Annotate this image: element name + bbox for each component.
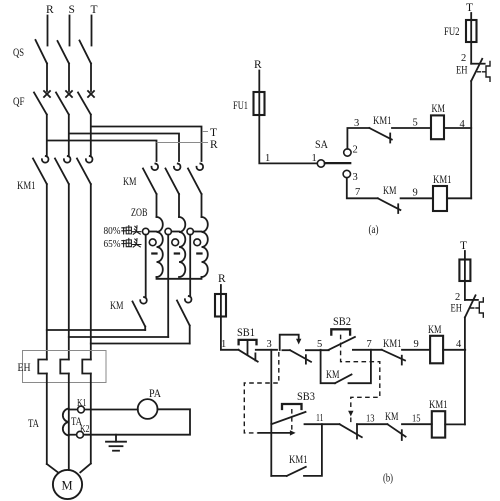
contact EH NC (thermal, circuit b) [465,295,483,317]
thermal relay EH box [23,351,107,383]
terminal K1 circle [69,406,85,413]
motor M circle [53,470,82,499]
svg-text:KM: KM [385,411,399,423]
contactor KM run contact 2 [177,296,192,343]
svg-text:T: T [210,127,217,139]
switch SA contact 3 circle [343,170,358,183]
svg-text:5: 5 [317,339,322,350]
contactor KM1 main contact S [55,156,70,359]
node T bus label [210,127,217,139]
wire R to fuse (b) [220,285,222,294]
terminal K2 label [80,424,90,435]
contact KM1 NO self-hold label [289,454,308,466]
button SB1 NC contact [239,340,258,362]
bus phase S to KM column (middle) [70,134,180,162]
CONTROL CIRCUIT A (top right) [233,2,490,236]
wire 9 segment [401,188,433,199]
wire contact2 up to branch [347,128,369,149]
contact SB3 NO blade (row2 left) [271,412,305,424]
svg-text:SA: SA [315,139,329,151]
wire tap2 down to H2 [167,235,169,337]
thermal relay EH heater S [60,360,69,471]
contact KM1 NC blade [369,128,391,143]
svg-text:KM1: KM1 [383,338,402,350]
contact 11-13 NC (linked to SB2) [340,424,362,438]
wire KM1 coil to right vertical (b) [445,423,465,425]
node T supply label [466,2,473,14]
contact KM NC blade (row2) [387,424,405,440]
svg-text:15: 15 [412,414,421,425]
breaker QF label [13,96,25,108]
wire motor lead T [80,464,91,473]
wire FU2 down [470,42,472,64]
svg-text:3: 3 [353,172,358,183]
contact KM NO label [326,369,340,381]
svg-text:QF: QF [13,96,25,108]
wire SB1 to node 3 [256,349,277,351]
svg-text:1: 1 [312,153,317,164]
svg-text:13: 13 [366,414,375,425]
svg-text:4: 4 [456,339,462,350]
node 5 wire number [317,339,322,350]
switch QS pole S [58,41,70,91]
svg-text:5: 5 [413,118,418,129]
wire T to fuse (b) [464,251,466,260]
wire H3 tap3 to phase T [91,343,190,345]
svg-text:(a): (a) [369,224,379,236]
CONTROL CIRCUIT B (bottom right) [215,240,483,485]
autotransformer winding 1 [152,217,163,277]
contact KM1 NC blade (row1) [382,350,405,365]
svg-text:R: R [210,139,218,151]
autotransformer winding 3 [197,217,207,277]
coil KM (b) [428,324,443,363]
svg-text:KM: KM [428,324,442,336]
svg-text:3: 3 [267,339,272,350]
linkage bracket over contact 3-5 [280,335,302,350]
thermal relay EH heater R [38,360,47,465]
wire number 2 label (b) [455,292,460,303]
wire H1 tap1 to phase R [47,329,145,331]
current transformer TA label (inner) [71,416,83,428]
svg-text:SB1: SB1 [237,327,255,339]
wire 5 segment [392,118,431,129]
autotransformer ZOB label [131,207,148,219]
wire 5-7 segment [353,349,382,351]
svg-text:KM: KM [383,185,397,197]
svg-text:KM1: KM1 [17,180,36,192]
ammeter PA label [149,388,162,400]
ammeter PA circle [138,399,158,419]
wire PA loop right and back to K2 [83,409,190,434]
thermal relay EH heater T [82,360,91,464]
wire KM1 coil to right vertical [447,197,471,199]
svg-text:2: 2 [353,145,358,156]
svg-text:KM1: KM1 [433,174,452,186]
node 3 wire number [267,339,272,350]
switch SA label [315,139,329,151]
wire number 7 label [355,187,360,198]
breaker QF pole S [56,91,72,156]
MAIN POWER CIRCUIT (left) [13,4,218,499]
terminal K1 label [77,398,87,409]
autotransformer winding 2 [175,217,186,277]
node R supply label [254,59,262,71]
contact 3-5 (linked, operated by SB3) [282,350,328,363]
wire star point bus of ZOB [157,277,202,279]
svg-text:TA: TA [28,418,40,430]
switch SA blade [325,162,350,164]
contact KM1 NC (in KM branch) label [373,115,392,127]
fuse FU2 [466,20,477,42]
wire right vertical (b) [464,317,466,424]
node R (phase R label) [46,4,54,16]
node 1 wire number (b) [221,339,226,350]
wire FU1 to node 1 [259,115,317,163]
node T (phase T label) [91,4,98,16]
wire node3 vertical down [270,350,272,476]
fuse FU1 [254,92,265,115]
svg-text:EH: EH [456,65,468,77]
svg-text:ZOB: ZOB [131,207,148,219]
svg-text:9: 9 [413,188,418,199]
thermal relay EH label [18,362,31,374]
coil KM1 [433,174,452,211]
fuse FU (b right) [459,260,470,282]
svg-text:3: 3 [354,118,359,129]
node R supply label (b) [218,273,226,285]
node S (phase S label) [69,4,75,16]
contactor KM run contact 1 [133,297,147,330]
contact KM NC blade [378,198,401,213]
wire H2 tap2 to phase S [69,336,168,338]
bus phase T to KM column (top) [92,127,209,162]
svg-text:T: T [91,4,98,16]
svg-text:S: S [69,4,75,16]
svg-text:KM1: KM1 [289,454,308,466]
fuse FU1 label [233,100,248,112]
button SB1 label [237,327,255,339]
svg-text:SB2: SB2 [333,316,351,328]
switch QS pole R [36,40,48,91]
contactor KM1 main contact T [77,156,92,359]
svg-text:7: 7 [367,339,372,350]
wire R to FU1 [258,71,260,93]
contact KM NC (in KM1 branch) label [383,185,397,197]
label 80% tap [104,226,141,237]
thermal relay EH label (circuit b) [451,303,463,315]
contactor KM1 main contact R [33,156,48,359]
contact KM1 NC (row1) label [383,338,402,350]
node T supply label (b) [460,240,467,252]
wire 9 segment (b) [402,339,430,350]
wire contact3 down to KM1 branch [347,178,378,199]
svg-text:4: 4 [460,119,466,130]
contactor KM label (starting contacts) [123,176,137,188]
terminal K2 circle [69,431,84,438]
node 7 wire number [367,339,372,350]
fuse FU2 label [444,26,460,38]
contactor KM1 label (main contacts) [17,180,36,192]
bus phase R to KM column (bottom) [48,141,209,162]
wire K1 to PA [84,409,137,411]
contactor KM run contact label (bottom) [110,300,124,312]
svg-text:R: R [254,59,262,71]
contactor KM start contact 1 [143,164,158,217]
node 11 wire number [316,413,324,424]
svg-text:KM1: KM1 [373,115,392,127]
switch SA contact 2 circle [344,145,358,157]
tap 80% circle winding1 [143,228,157,234]
switch QS label [13,47,24,59]
coil KM [431,103,445,139]
svg-text:80%: 80% [104,226,121,237]
wire row2 line to node 11 [305,423,340,425]
mechanical link dashed: contact3-5 to SB3 [244,352,295,436]
button SB3 cap and stem [282,404,302,431]
current transformer TA winding bumps [63,409,69,436]
node 1 wire number (at switch) [312,153,317,164]
svg-text:QS: QS [13,47,24,59]
wire phase R drop to QS [47,16,49,46]
svg-text:KM: KM [432,103,446,115]
thermal relay EH label (circuit a) [456,65,468,77]
contactor KM start contact 2 [166,164,181,217]
wire number 3 label [354,118,359,129]
svg-text:KM1: KM1 [429,399,448,411]
ground symbol [106,435,126,451]
svg-text:PA: PA [149,388,162,400]
node R bus label [210,139,218,151]
wire right vertical down to branches [470,81,472,198]
wire fuse down to EH (b) [464,281,466,300]
svg-text:FU2: FU2 [444,26,460,38]
wire 4 segment [444,119,471,130]
switch QS pole T [80,41,92,92]
wire number 2 label [461,53,466,64]
wire fuse down to row1 [221,317,239,350]
svg-text:FU1: FU1 [233,100,248,112]
wire 15 segment [402,414,432,425]
wire tap3 down [189,235,191,296]
svg-text:EH: EH [18,362,31,374]
svg-text:KM: KM [326,369,340,381]
wire phase T drop to QS [91,16,93,46]
tap 80% circle winding3 [187,228,202,234]
svg-text:M: M [62,479,73,493]
node 1 wire number (left) [265,153,270,164]
wire tap1 down [145,235,147,297]
switch SA common circle [317,160,324,167]
svg-text:2: 2 [455,292,460,303]
svg-text:7: 7 [355,187,360,198]
label 65% tap [104,238,141,249]
svg-text:65%: 65% [104,239,121,250]
button SB2 NO contact [329,329,355,350]
contactor KM start contact 3 [188,164,203,217]
svg-text:1: 1 [265,153,270,164]
coil KM1 (b) [429,399,448,438]
svg-text:1: 1 [221,339,226,350]
contact KM NO (parallel with SB2) [321,350,371,383]
wire T to FU2 [470,13,472,20]
contact KM1 NO self-hold [271,424,322,476]
button SB2 label [333,316,351,328]
svg-text:KM: KM [123,176,137,188]
svg-text:R: R [46,4,54,16]
label (b) [383,473,393,485]
label (a) [369,224,379,236]
svg-text:KM: KM [110,300,124,312]
wire phase S drop to QS [69,16,71,46]
svg-text:EH: EH [451,303,463,315]
svg-text:T: T [460,240,467,252]
svg-text:2: 2 [461,53,466,64]
breaker QF pole R (x mark + blade) [34,91,50,156]
button SB3 label [297,391,315,403]
fuse FU (b left) [215,294,226,317]
svg-text:9: 9 [414,339,419,350]
current transformer TA label (left) [28,418,40,430]
wire 4 segment (b) [443,339,465,350]
tap 65% circle winding1 [149,239,156,246]
wire 13 segment [357,414,387,425]
tap 65% circle winding3 [194,239,201,246]
contact KM NC (row2) label [385,411,399,423]
breaker QF pole T [78,91,94,156]
svg-text:SB3: SB3 [297,391,315,403]
tap 65% circle winding2 [172,239,179,246]
svg-text:(b): (b) [383,473,393,485]
mechanical link dashed: SB2 stem to contact 11-13 [341,335,380,424]
contact EH NC (thermal, circuit a) [471,59,490,82]
wire motor lead R [47,464,58,472]
svg-text:R: R [218,273,226,285]
svg-text:11: 11 [316,413,324,424]
tap 80% circle winding2 [165,228,179,234]
